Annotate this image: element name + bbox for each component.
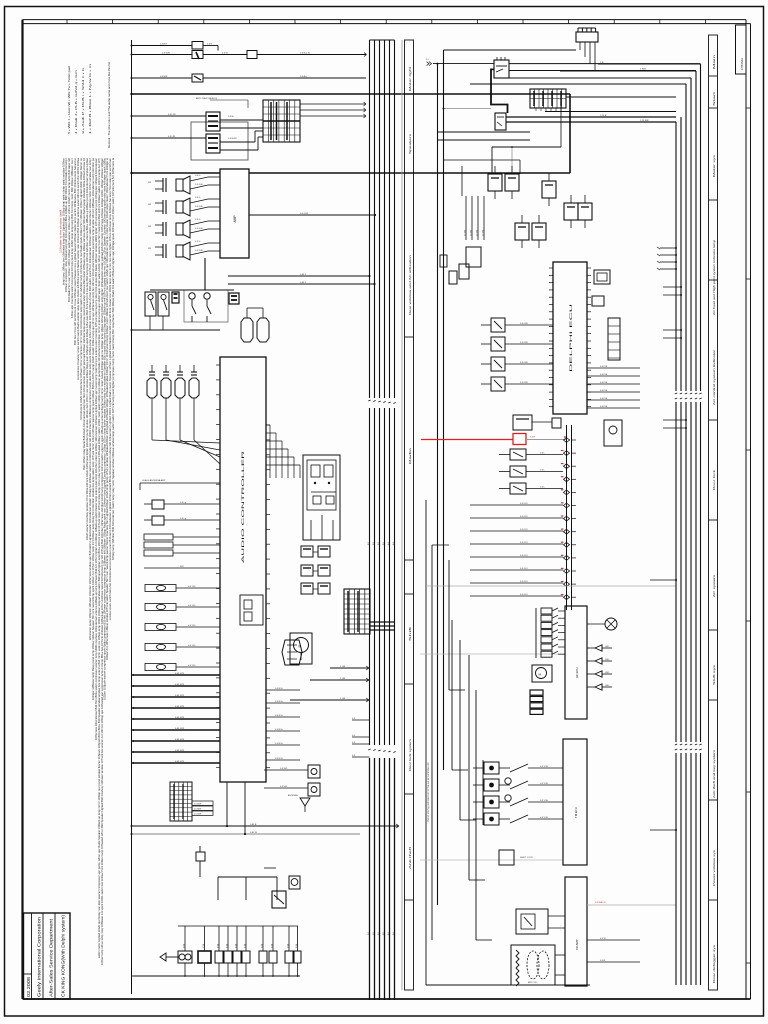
svg-text:0.5 G/R: 0.5 G/R (520, 342, 528, 344)
svg-text:0.5 G/O: 0.5 G/O (520, 594, 528, 596)
svg-text:AC head and High point system: AC head and High point system indicator … (713, 239, 716, 315)
svg-text:0.5B: 0.5B (203, 943, 205, 948)
radio relay pair (131, 97, 264, 160)
harness connector table (170, 782, 213, 821)
right half upper ties (438, 132, 530, 196)
svg-text:0.5 P/B: 0.5 P/B (600, 398, 608, 400)
svg-text:0.85 SPK: 0.85 SPK (175, 717, 185, 719)
amplifier box AMP (220, 169, 249, 258)
svg-text:0.5 R/G: 0.5 R/G (275, 758, 283, 760)
red note text (59, 210, 63, 253)
svg-text:LED: LED (605, 646, 610, 648)
svg-text:0.5 B/W: 0.5 B/W (194, 814, 201, 816)
top frame division ticks (67, 20, 705, 24)
centre trunk harness (368, 40, 395, 1000)
svg-text:AC system: AC system (713, 575, 716, 597)
svg-text:0.85 SPK: 0.85 SPK (175, 673, 185, 675)
door speaker columns (147, 365, 220, 464)
svg-text:1.25 B/R: 1.25 B/R (640, 120, 649, 122)
svg-text:0.5 G/O: 0.5 G/O (520, 568, 528, 570)
svg-text:0.5 B/W: 0.5 B/W (194, 809, 201, 811)
svg-text:DELPHI ECU: DELPHI ECU (569, 302, 573, 372)
left bus wire (132, 40, 134, 994)
drawing number box (736, 25, 747, 74)
svg-text:0.5 G/O: 0.5 G/O (520, 581, 528, 583)
svg-text:LED: LED (605, 672, 610, 674)
svg-text:0.5 RADIO: 0.5 RADIO (595, 901, 606, 904)
svg-text:0.5 Br: 0.5 Br (228, 115, 234, 118)
svg-text:0.5 R/G: 0.5 R/G (275, 701, 283, 703)
svg-text:window spark switch lamp fan 1: window spark switch lamp fan 10Instrumen… (109, 158, 112, 620)
svg-text:1.25 B: 1.25 B (600, 115, 607, 117)
svg-text:0.5 W/B: 0.5 W/B (162, 53, 170, 55)
svg-text:0.5 R/G: 0.5 R/G (275, 688, 283, 690)
ignition coil group (488, 166, 592, 248)
svg-text:0.5 V/W: 0.5 V/W (540, 800, 549, 802)
engine fuse box (492, 89, 676, 174)
svg-text:0.5 G/O: 0.5 G/O (520, 542, 528, 544)
svg-text:Motor light: Motor light (409, 66, 412, 91)
svg-text:12Fan ajar Courtesy switch box: 12Fan ajar Courtesy switch box panel 10I… (71, 157, 74, 318)
highlighted wire (red) (421, 434, 566, 445)
svg-text:0.5 G/B: 0.5 G/B (195, 250, 203, 252)
svg-text:Radio: Radio (409, 446, 412, 464)
svg-text:Part of anti-fog defroster tur: Part of anti-fog defroster turn in hot o… (427, 762, 430, 822)
svg-text:0.5 P/B: 0.5 P/B (600, 374, 608, 376)
svg-text:0.5 R: 0.5 R (530, 437, 536, 439)
shift solenoid group (473, 762, 563, 865)
svg-text:0.5 L/W: 0.5 L/W (168, 114, 176, 116)
svg-text:0.5 G: 0.5 G (195, 175, 201, 177)
svg-text:AC control system indicator: AC control system indicator (713, 350, 716, 405)
right frame division ticks (746, 108, 751, 963)
svg-text:0.5 G: 0.5 G (195, 197, 201, 199)
main connector comb (576, 28, 598, 71)
svg-text:5 ▪ Wht 1 ▪ Horn W ▪ Wht: 5 ▪ Wht 1 ▪ Horn W ▪ Wht Tw ▪ Twist pair (67, 66, 71, 134)
svg-text:0.5B: 0.5B (271, 943, 273, 948)
svg-text:0.5 L/R: 0.5 L/R (168, 136, 175, 138)
long bottom wire A (131, 824, 400, 828)
svg-text:0.5 R/G: 0.5 R/G (275, 715, 283, 717)
svg-text:Rear defogger sys: Rear defogger sys (713, 943, 716, 983)
grey trunk wire (401, 40, 403, 990)
svg-text:Meter sys: Meter sys (713, 153, 716, 177)
grey wire 3 (420, 859, 563, 861)
svg-text:2 L/R: 2 L/R (340, 666, 346, 668)
thick supply wire (130, 93, 570, 173)
svg-text:0.5 Lg: 0.5 Lg (180, 518, 187, 520)
svg-text:GLASS ANTENNA AMP: GLASS ANTENNA AMP (142, 479, 166, 482)
svg-text:0.85 SPK: 0.85 SPK (175, 706, 185, 708)
CD mechanism (516, 909, 565, 934)
svg-text:Start: Start (713, 91, 716, 106)
svg-text:B16 Radio Horn rear 10Door 100: B16 Radio Horn rear 10Door 10001 10Rear … (68, 158, 71, 302)
svg-text:0.5 Y/G: 0.5 Y/G (188, 665, 196, 667)
svg-text:Speakers: Speakers (409, 132, 412, 154)
svg-text:0.5 Y/G: 0.5 Y/G (188, 586, 196, 588)
svg-text:0.5 G/R: 0.5 G/R (520, 323, 528, 325)
svg-text:0.85 SPK: 0.85 SPK (175, 728, 185, 730)
AC switch column (530, 608, 565, 714)
svg-text:M: M (299, 645, 302, 649)
svg-text:0.5 B/R: 0.5 B/R (160, 76, 168, 78)
svg-text:0.85 SPK: 0.85 SPK (175, 739, 185, 741)
right bottom bus (426, 984, 590, 986)
svg-text:0.5 L: 0.5 L (540, 487, 546, 489)
svg-text:FR: FR (148, 226, 151, 228)
svg-text:0.5 G/O: 0.5 G/O (520, 555, 528, 557)
controller key rows (140, 479, 220, 671)
svg-text:10Door lamp 12Fan lamp relay 1: 10Door lamp 12Fan lamp relay 10Blower An… (101, 158, 104, 965)
section feed verticals (432, 545, 492, 940)
svg-text:0.5 Acc: 0.5 Acc (300, 75, 308, 78)
svg-text:0.5 Lg: 0.5 Lg (180, 502, 187, 504)
svg-text:CD AMP: CD AMP (575, 939, 579, 950)
svg-text:0.5 Y/G: 0.5 Y/G (188, 605, 196, 607)
svg-text:0.5B: 0.5B (261, 943, 263, 948)
door lock rows (470, 449, 563, 596)
ECU pins (549, 268, 591, 407)
svg-text:10Cigar 10Blower lamp Relay pa: 10Cigar 10Blower lamp Relay panel lamp 1… (92, 157, 95, 700)
svg-text:0.5 G/W: 0.5 G/W (300, 213, 309, 215)
svg-text:0.5 B: 0.5 B (207, 44, 213, 46)
svg-text:AMP: AMP (233, 215, 237, 223)
svg-text:0.5B: 0.5B (287, 943, 289, 948)
svg-text:Geely International Corporatio: Geely International Corporation (37, 916, 42, 997)
engine ECU box (553, 262, 587, 414)
svg-text:Door lock: Door lock (713, 468, 716, 490)
svg-text:B30 box mirror left switch fro: B30 box mirror left switch front mirror … (74, 157, 77, 345)
centre label bar (405, 40, 414, 990)
svg-text:0.85 W: 0.85 W (250, 832, 258, 834)
svg-text:FR: FR (148, 182, 151, 184)
svg-text:10Stop lamp 10Amber B30 10Cond: 10Stop lamp 10Amber B30 10Condenser swit… (112, 157, 115, 560)
svg-text:LED: LED (605, 685, 610, 687)
door harness grid connector (344, 589, 395, 634)
controller bottom feed bundle (132, 673, 220, 764)
right label bar (709, 35, 718, 990)
right trunk dash breaks (675, 391, 702, 753)
svg-text:IG SW: IG SW (476, 230, 478, 236)
svg-text:1T84643: 1T84643 (740, 58, 744, 70)
svg-text:3 ▪ Audi P ▪ PLB i ▪ Shld: 3 ▪ Audi P ▪ PLB i ▪ Shld n ▪ b (81, 67, 85, 134)
tweeter speakers (228, 296, 269, 342)
svg-text:10Harness 10Condenser B30 Horn: 10Harness 10Condenser B30 Horn B01a swit… (95, 158, 98, 740)
svg-text:0.5 R/G: 0.5 R/G (275, 729, 283, 731)
svg-text:2 L/R: 2 L/R (340, 678, 346, 680)
svg-text:IG SW: IG SW (470, 230, 472, 236)
svg-text:left washer pump 10Spark 10Pow: left washer pump 10Spark 10Power 10Amber… (89, 157, 92, 640)
svg-text:0.5 B: 0.5 B (600, 960, 606, 962)
fuse F3 chain (131, 74, 367, 82)
svg-text:0.5 L: 0.5 L (540, 470, 546, 472)
svg-text:Main: Main (714, 53, 716, 69)
svg-text:0.5 W: 0.5 W (222, 53, 229, 55)
svg-text:Remark : The wire color and Th: Remark : The wire color and The audio na… (107, 62, 111, 148)
svg-text:10Instrument 10A/C 10Instrumen: 10Instrument 10A/C 10Instrument 10Power … (80, 157, 83, 420)
controller right connectors (240, 425, 302, 760)
svg-text:IG SW: IG SW (482, 230, 484, 236)
svg-text:0.5 G/O: 0.5 G/O (520, 503, 528, 505)
trunk zone labels (368, 541, 395, 935)
svg-text:0.5 G/O: 0.5 G/O (520, 529, 528, 531)
svg-text:After-Sales Service Department: After-Sales Service Department (49, 918, 54, 997)
audio switch assembly (131, 258, 240, 331)
main relay and ign relay (443, 57, 677, 130)
svg-text:0.5 Y/G: 0.5 Y/G (188, 645, 196, 647)
svg-text:0.85 L: 0.85 L (300, 274, 307, 276)
svg-text:0.5 P/B: 0.5 P/B (600, 366, 608, 368)
svg-text:compressor Courtesy wiper swit: compressor Courtesy wiper switch pump Ra… (77, 157, 80, 380)
door connector strip (561, 425, 576, 610)
svg-text:10Amber to the window itself: 10Amber to the window itself (59, 210, 63, 253)
battery feed wires (426, 59, 701, 71)
svg-text:0.85 L: 0.85 L (300, 282, 307, 284)
svg-text:0.5 W: 0.5 W (600, 938, 607, 940)
svg-text:2 R/W: 2 R/W (640, 69, 647, 71)
svg-text:0.5 P/B: 0.5 P/B (600, 382, 608, 384)
ground distribution row (133, 926, 301, 977)
svg-text:ANTENNA: ANTENNA (288, 794, 298, 797)
svg-text:0.85 SPK: 0.85 SPK (175, 695, 185, 697)
svg-text:0.5B: 0.5B (226, 943, 228, 948)
title block (24, 913, 71, 999)
svg-text:02.2008: 02.2008 (26, 976, 31, 997)
svg-text:2 L/R: 2 L/R (340, 698, 346, 700)
grey wire 2 (420, 653, 565, 655)
svg-text:0.5 W/L: 0.5 W/L (280, 768, 288, 770)
svg-text:0.85 SPK: 0.85 SPK (175, 750, 185, 752)
svg-text:10A/C washer Courtesy window m: 10A/C washer Courtesy window mirror B01a… (86, 157, 89, 540)
glass antenna element (511, 945, 565, 986)
svg-text:0.5 V/W: 0.5 V/W (540, 766, 549, 768)
svg-text:Shift sys: Shift sys (713, 663, 716, 685)
svg-text:TM ECU: TM ECU (574, 807, 578, 818)
amp speakers (148, 175, 220, 260)
svg-text:0.5B: 0.5B (235, 943, 237, 948)
right schematic feed verticals (426, 50, 576, 985)
svg-text:CK KING KONG(With Delphi syste: CK KING KONG(With Delphi system) (61, 914, 66, 997)
svg-text:ANTI-THEFT(AUDIO): ANTI-THEFT(AUDIO) (196, 97, 217, 100)
svg-text:Power window sys: Power window sys (713, 848, 716, 886)
svg-text:0.85 SPK: 0.85 SPK (175, 761, 185, 763)
svg-text:0.5 G/B: 0.5 G/B (195, 228, 203, 230)
svg-text:0.5B: 0.5B (296, 943, 298, 948)
controller right pins (266, 425, 270, 768)
svg-text:0.5 G: 0.5 G (195, 241, 201, 243)
controller left pins (216, 365, 220, 767)
svg-text:0.5 P/B: 0.5 P/B (600, 390, 608, 392)
svg-text:Anti theft: Anti theft (409, 846, 412, 869)
svg-text:LED: LED (605, 659, 610, 661)
ignition switch column (440, 196, 484, 284)
svg-text:switch motor Lighted 10A/C aja: switch motor Lighted 10A/C ajar Relay re… (98, 158, 101, 958)
svg-text:4 ▪ Radi J ▪ PLB ▪ GrNd: 4 ▪ Radi J ▪ PLB ▪ GrNd q ▪ Grn (74, 69, 78, 134)
ECU right components (587, 270, 640, 446)
svg-text:0.5 B/Y: 0.5 B/Y (160, 44, 168, 46)
svg-text:0.5 G/B: 0.5 G/B (195, 206, 203, 208)
engine sensors left (481, 318, 553, 391)
svg-text:0.85 B: 0.85 B (250, 824, 257, 826)
svg-text:FR: FR (148, 248, 151, 250)
components below ECU (513, 415, 561, 430)
svg-text:0.5 G/O: 0.5 G/O (520, 516, 528, 518)
fuse F1 and wire (131, 42, 219, 51)
antenna amp box (565, 877, 587, 986)
svg-text:AUDIO CONTROLLER: AUDIO CONTROLLER (241, 449, 245, 563)
svg-text:0.5 G/R: 0.5 G/R (520, 382, 528, 384)
svg-text:Horn 10Turn relay Radio B16 10: Horn 10Turn relay Radio B16 10A/C 10Cond… (83, 157, 86, 470)
window motor (290, 633, 312, 664)
svg-text:ANT COIL: ANT COIL (528, 981, 538, 984)
annotation wire text (427, 762, 430, 822)
svg-text:Shift: Shift (409, 626, 412, 641)
svg-text:0.5 B/W: 0.5 B/W (194, 804, 201, 806)
centre trunk top tie (370, 39, 395, 41)
svg-text:0.5B: 0.5B (183, 943, 185, 948)
svg-text:0.5 R/G: 0.5 R/G (275, 743, 283, 745)
fuse F2 chain to trunk (131, 51, 367, 60)
svg-text:FR: FR (148, 204, 151, 206)
AC indicators (587, 618, 617, 690)
svg-text:0.5B: 0.5B (217, 943, 219, 948)
svg-text:IG SW: IG SW (464, 230, 466, 236)
right trunk harness (470, 64, 701, 985)
svg-text:0.5 Y/G: 0.5 Y/G (188, 625, 196, 627)
amp feed wire (130, 172, 220, 174)
mirror switch assembly (303, 455, 340, 540)
junction block connector table (263, 100, 300, 142)
rear defogger relay cluster (196, 782, 300, 908)
long bottom wire B (131, 832, 361, 835)
svg-text:0.5 W/L: 0.5 W/L (280, 786, 288, 788)
svg-text:SHIFT LOCK: SHIFT LOCK (520, 857, 533, 859)
svg-text:Rear window and AC utilization: Rear window and AC utilization (409, 254, 412, 315)
legend (wire colour key) (67, 62, 111, 148)
svg-text:0.5 V/W: 0.5 V/W (540, 817, 549, 819)
svg-text:0.5 G/R: 0.5 G/R (520, 362, 528, 364)
AC ECU box (565, 606, 587, 719)
svg-text:0.5 P/B: 0.5 P/B (600, 406, 608, 408)
svg-text:1 ▪ Ref B ▪ Blue L ▪ Ny/w: 1 ▪ Ref B ▪ Blue L ▪ Ny/w G ▪ m (88, 64, 92, 134)
svg-text:0.5 V/W: 0.5 V/W (540, 783, 549, 785)
svg-text:Door lock system: Door lock system (409, 739, 412, 771)
mirror relay rows (301, 546, 330, 594)
svg-text:0.5B: 0.5B (244, 943, 246, 948)
svg-text:Anti theft and key system: Anti theft and key system (713, 750, 716, 798)
TM ECU box (563, 739, 587, 865)
grounding notes text block (63, 157, 116, 965)
cross wires to trunk upper (203, 76, 376, 285)
svg-text:AC ECU: AC ECU (575, 667, 579, 678)
svg-text:0.5 Br/W: 0.5 Br/W (228, 137, 237, 140)
cross wires to trunk lower (290, 666, 370, 757)
svg-text:0.85 SPK: 0.85 SPK (175, 684, 185, 686)
audio controller box (220, 357, 266, 782)
svg-text:0.5 G: 0.5 G (195, 219, 201, 221)
svg-text:0.5 G/B: 0.5 G/B (195, 184, 203, 186)
svg-text:0.5 L: 0.5 L (540, 453, 546, 455)
trunk stub wires (650, 247, 687, 831)
antenna output wires (587, 901, 676, 962)
svg-text:lamp lamp 10Rear box 10Heated: lamp lamp 10Rear box 10Heated lamp door … (63, 158, 66, 285)
power antenna comps (264, 765, 320, 812)
grey wire 1 (426, 585, 676, 587)
svg-text:0.5 Bat 30: 0.5 Bat 30 (300, 52, 311, 55)
